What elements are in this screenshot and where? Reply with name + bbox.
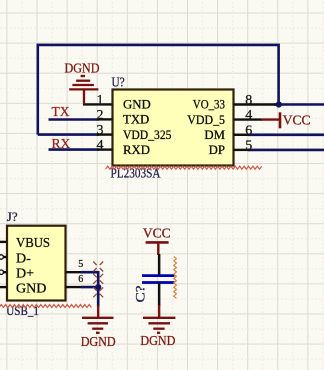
pin names U? [123, 98, 225, 158]
svg-text:GND: GND [16, 281, 46, 296]
ground DGND top [69, 76, 98, 104]
ground DGND under USB [82, 305, 114, 333]
svg-text:VDD_5: VDD_5 [187, 113, 225, 127]
svg-text:4: 4 [97, 138, 104, 153]
svg-text:C?: C? [133, 285, 148, 302]
pin 4 VDD_5 [234, 118, 263, 120]
svg-text:6: 6 [245, 123, 252, 138]
wire DP to right edge [248, 149, 324, 152]
svg-text:TXD: TXD [123, 113, 149, 127]
pin 8 VO_33 [234, 103, 277, 105]
pin D+ stub with bubble [0, 270, 3, 274]
svg-text:5: 5 [245, 138, 252, 153]
svg-text:5: 5 [78, 259, 83, 270]
svg-text:VDD_325: VDD_325 [123, 128, 172, 142]
wire RX stub [49, 148, 100, 151]
wire pin5 to ground [81, 272, 98, 307]
svg-text:DGND: DGND [65, 61, 100, 76]
svg-text:1: 1 [97, 93, 104, 108]
svg-text:J?: J? [7, 209, 18, 224]
wire DM to right edge [248, 134, 324, 137]
no-ERC cross 3 [93, 287, 103, 297]
svg-text:DGND: DGND [81, 335, 116, 350]
pin GND stub [0, 286, 7, 288]
error squiggle right of capacitor [174, 257, 177, 299]
error squiggle under U? [106, 166, 262, 169]
svg-text:RXD: RXD [123, 143, 150, 157]
pin 6 DM [234, 134, 250, 136]
IC U? PL2303SA body [113, 90, 234, 166]
power port VCC right of pin 4 [279, 112, 282, 128]
connector J? USB_1 body [7, 226, 66, 301]
wire pin6 to junction [81, 286, 98, 289]
svg-text:RX: RX [52, 136, 71, 151]
no-ERC cross 1 [93, 262, 103, 272]
wire VCC to capacitor [158, 254, 160, 276]
svg-text:4: 4 [245, 108, 252, 123]
error squiggle under USB_1 [0, 305, 91, 308]
wire VDD_5 to VCC [261, 118, 279, 120]
svg-text:VCC: VCC [143, 225, 171, 240]
svg-text:3: 3 [97, 123, 104, 138]
svg-text:VO_33: VO_33 [193, 98, 225, 112]
svg-text:8: 8 [245, 93, 252, 108]
capacitor C? [142, 274, 174, 277]
svg-text:DM: DM [204, 128, 225, 142]
svg-text:D+: D+ [16, 267, 34, 282]
pin 1 GND [83, 103, 113, 105]
wire TX stub [49, 118, 100, 121]
svg-text:VCC: VCC [283, 112, 311, 127]
wire bus to pin3 [38, 133, 99, 136]
pin 6 right of USB [66, 286, 83, 288]
wire top rail VDD_325 to VO_33 [38, 45, 279, 135]
pin names USB [16, 236, 50, 296]
no-ERC cross 2 [93, 274, 103, 284]
pin 5 DP [234, 149, 250, 151]
svg-text:TX: TX [52, 104, 70, 119]
pin D- stub with bubble [0, 255, 3, 259]
svg-text:2: 2 [97, 108, 104, 123]
pin VBUS stub [0, 241, 7, 243]
pin 4 RXD [97, 148, 113, 150]
ground DGND under capacitor [143, 305, 175, 333]
pin numbers U? [97, 93, 253, 153]
wire pin8 to right edge [274, 103, 324, 106]
svg-text:DP: DP [209, 143, 225, 157]
svg-text:6: 6 [78, 274, 83, 285]
svg-text:D-: D- [16, 252, 31, 267]
pin 3 VDD_325 [97, 133, 113, 135]
svg-text:GND: GND [123, 98, 151, 112]
svg-text:U?: U? [112, 76, 125, 91]
svg-text:DGND: DGND [140, 334, 175, 349]
power port VCC above capacitor [146, 241, 169, 244]
svg-text:VBUS: VBUS [16, 236, 50, 251]
pin 5 right of USB [66, 271, 83, 273]
junction node pin8/VCC rail [276, 101, 282, 107]
pin 2 TXD [97, 118, 113, 120]
wire capacitor to ground [158, 283, 160, 307]
junction node USB ground [95, 284, 101, 290]
